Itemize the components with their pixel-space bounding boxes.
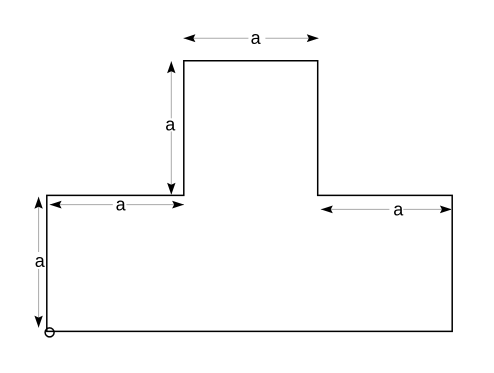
- svg-text:a: a: [251, 28, 262, 48]
- svg-text:a: a: [35, 251, 46, 271]
- svg-text:a: a: [116, 195, 127, 215]
- svg-text:a: a: [393, 200, 404, 220]
- svg-text:a: a: [165, 115, 176, 135]
